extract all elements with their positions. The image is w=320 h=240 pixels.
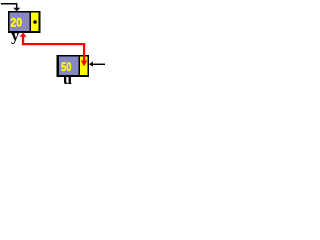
arrowhead: red wire down into yellow panel of block U1 [81,61,87,67]
wire: input signal line into display block Y1 [1,4,17,8]
display block U1: yellow side panel [80,57,88,76]
wire: red vertical segment below block Y1 [22,36,24,45]
svg-text:u: u [63,69,72,85]
wire: red horizontal segment [22,43,85,45]
arrowhead: red highlighted wire up into bottom of block Y1 [20,32,27,36]
arrowhead: input wire into top of block Y1 [13,8,20,12]
display block Y1: purple value area [10,13,30,32]
display block U1: purple value area [59,57,79,76]
display block Y1: yellow side panel [31,13,39,32]
display block Y1 (value 20): outer border [8,11,41,33]
wire: black output line right of block U1 [90,64,106,65]
display block U1 (value 50): outer border [57,55,90,77]
wire: red vertical segment down into block U1 [83,43,85,61]
arrowhead: black wire pointing left into block U1 [89,61,93,66]
svg-text:y: y [11,26,19,45]
display block Y1: black dot in side panel [33,20,37,24]
